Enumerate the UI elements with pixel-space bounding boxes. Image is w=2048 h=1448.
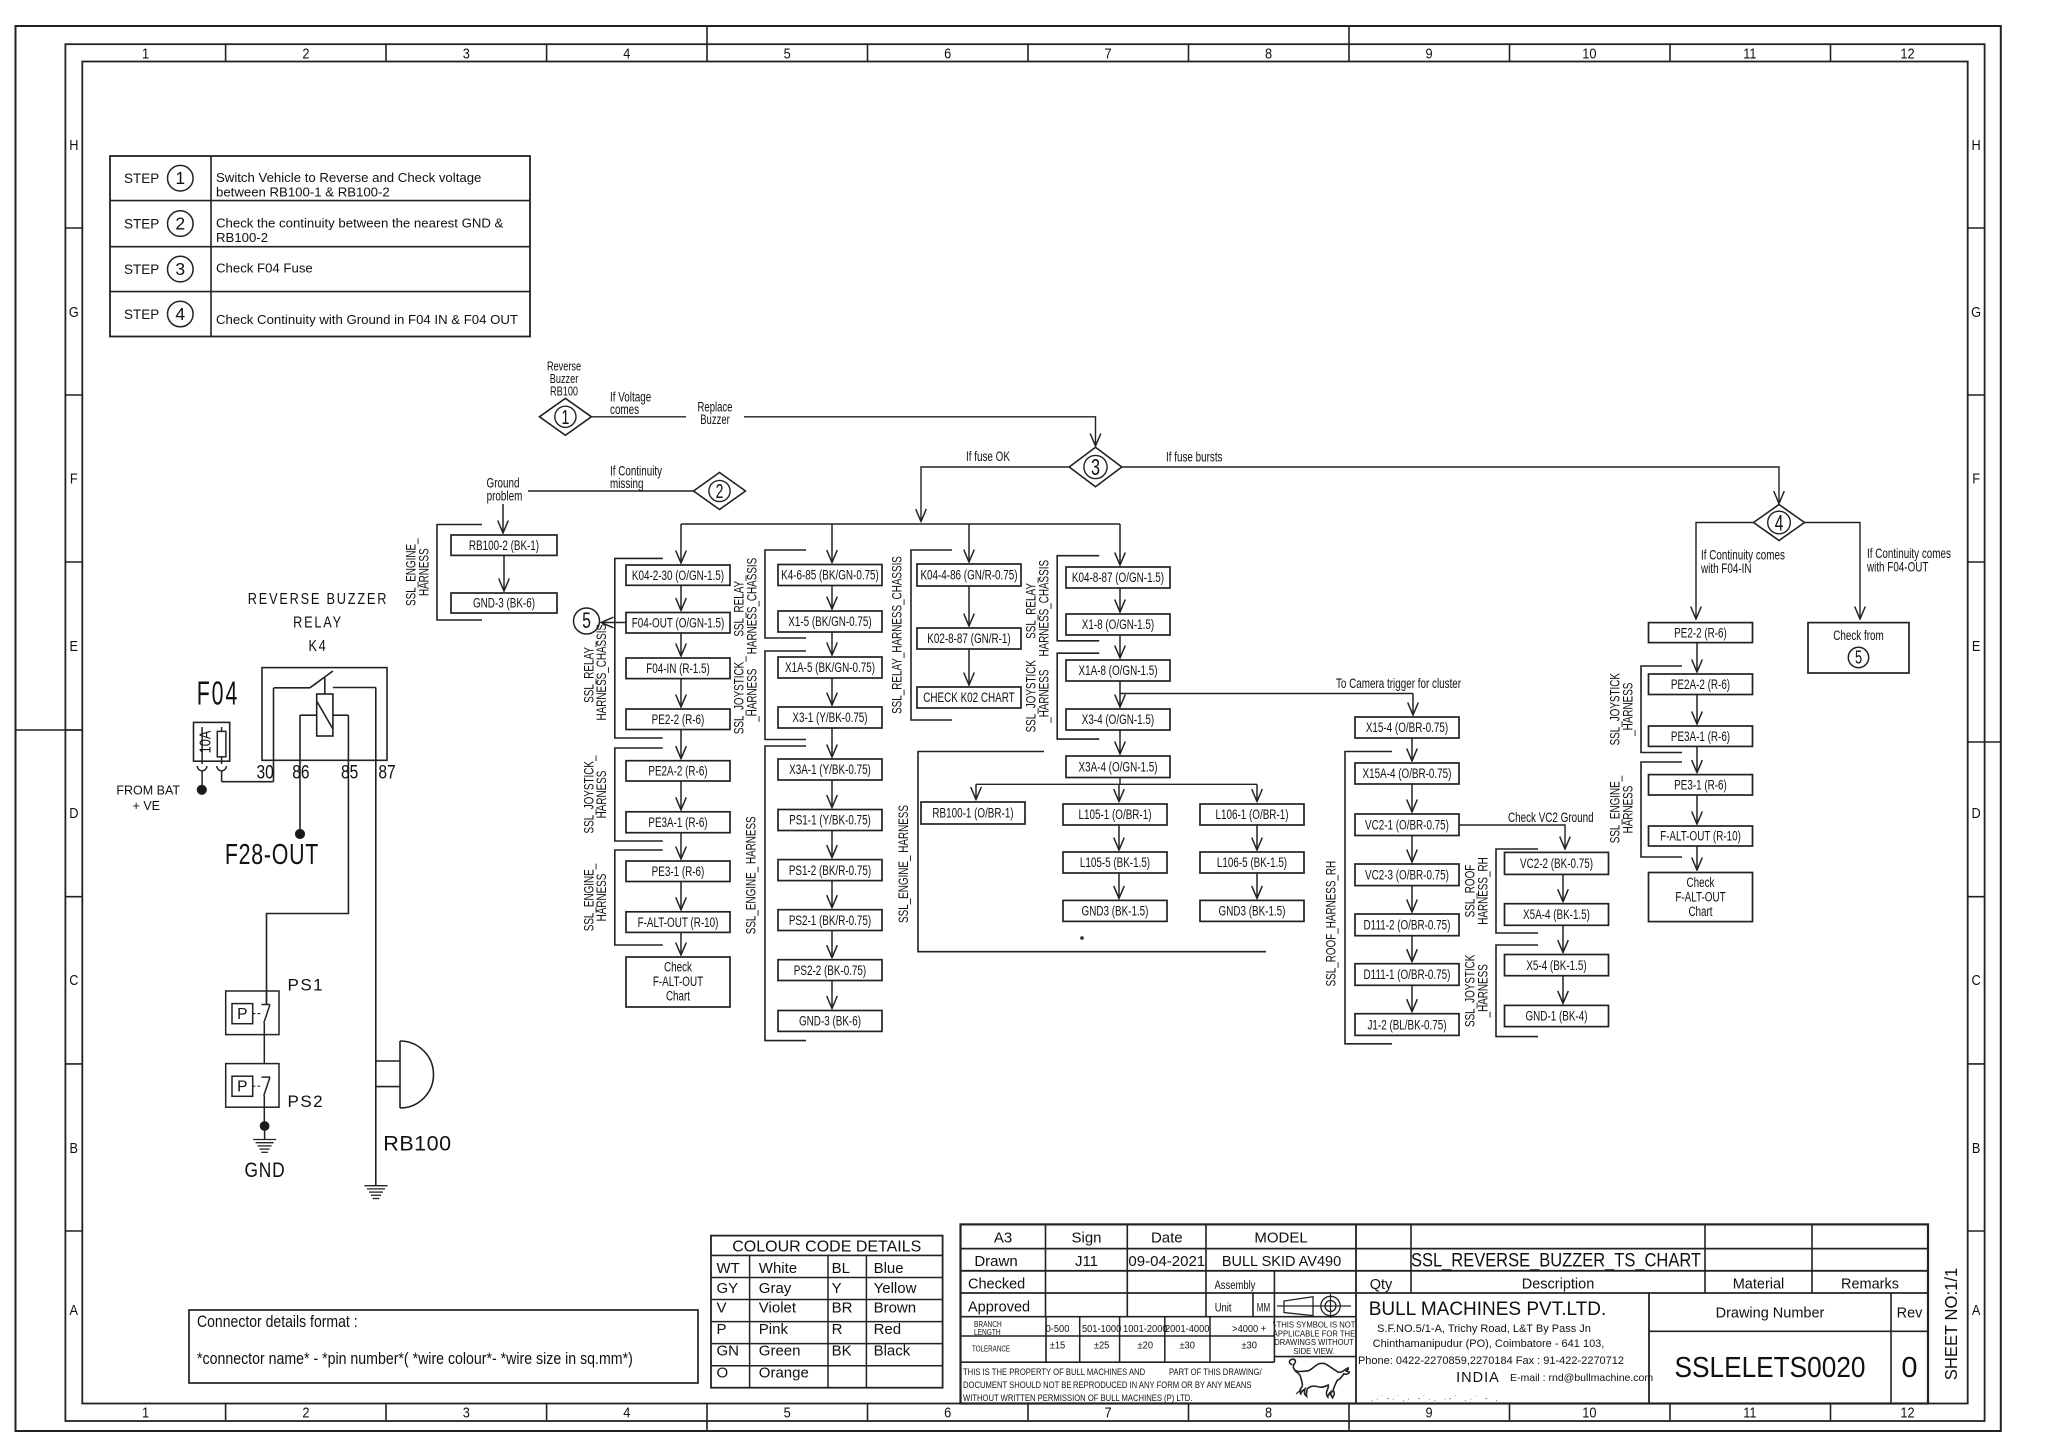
svg-text:DOCUMENT SHOULD NOT BE: DOCUMENT SHOULD NOT BE bbox=[963, 1380, 1072, 1390]
svg-text:4: 4 bbox=[175, 304, 185, 324]
svg-text:F-ALT-OUT (R-10): F-ALT-OUT (R-10) bbox=[638, 915, 719, 931]
svg-text:BR: BR bbox=[832, 1300, 853, 1317]
svg-text:Chart: Chart bbox=[1688, 904, 1712, 920]
svg-text:±20: ±20 bbox=[1138, 1341, 1154, 1352]
svg-text:G: G bbox=[69, 304, 79, 321]
svg-text:Qty: Qty bbox=[1370, 1277, 1393, 1293]
svg-text:F04: F04 bbox=[197, 675, 240, 712]
svg-text:2: 2 bbox=[175, 214, 185, 234]
svg-text:Green: Green bbox=[759, 1343, 801, 1360]
svg-text:F04-OUT (O/GN-1.5): F04-OUT (O/GN-1.5) bbox=[632, 616, 725, 632]
svg-text:STEP: STEP bbox=[124, 262, 159, 277]
svg-text:2: 2 bbox=[302, 46, 309, 63]
svg-text:K04-2-30 (O/GN-1.5): K04-2-30 (O/GN-1.5) bbox=[632, 568, 724, 584]
svg-text:GN: GN bbox=[717, 1343, 740, 1360]
svg-text:D: D bbox=[69, 805, 78, 822]
svg-text:K4-6-85 (BK/GN-0.75): K4-6-85 (BK/GN-0.75) bbox=[781, 568, 879, 584]
svg-text:X3A-1 (Y/BK-0.75): X3A-1 (Y/BK-0.75) bbox=[789, 762, 871, 778]
svg-text:L106-5 (BK-1.5): L106-5 (BK-1.5) bbox=[1217, 855, 1287, 871]
svg-text:Drawn: Drawn bbox=[974, 1253, 1017, 1270]
svg-text:Yellow: Yellow bbox=[874, 1280, 917, 1297]
svg-text:2001-4000: 2001-4000 bbox=[1165, 1324, 1210, 1335]
svg-text:Drawing Number: Drawing Number bbox=[1716, 1306, 1825, 1322]
svg-text:6: 6 bbox=[944, 1405, 951, 1422]
svg-text:PE3-1 (R-6): PE3-1 (R-6) bbox=[652, 864, 705, 880]
svg-text:>4000 +: >4000 + bbox=[1232, 1324, 1266, 1335]
svg-text:F-ALT-OUT: F-ALT-OUT bbox=[1675, 890, 1726, 906]
svg-text:Check from: Check from bbox=[1833, 628, 1884, 644]
svg-text:1001-2000: 1001-2000 bbox=[1123, 1324, 1168, 1335]
svg-text:GND-3 (BK-6): GND-3 (BK-6) bbox=[799, 1014, 861, 1030]
svg-text:+ VE: + VE bbox=[133, 799, 160, 813]
svg-text:Chinthamanipudur (PO), Coimbat: Chinthamanipudur (PO), Coimbatore - 641 … bbox=[1373, 1338, 1605, 1350]
svg-text:PE2-2 (R-6): PE2-2 (R-6) bbox=[1674, 625, 1727, 641]
svg-text:SIDE VIEW.: SIDE VIEW. bbox=[1293, 1346, 1334, 1356]
svg-text:1: 1 bbox=[562, 407, 570, 429]
svg-text:A: A bbox=[70, 1302, 79, 1319]
svg-text:MM: MM bbox=[1257, 1303, 1270, 1315]
svg-text:11: 11 bbox=[1743, 1405, 1756, 1422]
svg-text:B: B bbox=[70, 1140, 79, 1157]
svg-text:HARNESS_CHASSIS: HARNESS_CHASSIS bbox=[594, 624, 610, 721]
svg-text:8: 8 bbox=[1265, 1405, 1272, 1422]
svg-text:COLOUR CODE DETAILS: COLOUR CODE DETAILS bbox=[732, 1238, 921, 1255]
svg-text:12: 12 bbox=[1900, 1405, 1914, 1422]
svg-text:10: 10 bbox=[1582, 1405, 1596, 1422]
svg-text:10: 10 bbox=[1582, 46, 1596, 63]
svg-text:X3-4 (O/GN-1.5): X3-4 (O/GN-1.5) bbox=[1082, 712, 1154, 728]
svg-text:Buzzer: Buzzer bbox=[700, 412, 730, 427]
svg-text:BULL MACHINES PVT.LTD.: BULL MACHINES PVT.LTD. bbox=[1369, 1299, 1607, 1320]
svg-text:GND: GND bbox=[244, 1159, 285, 1182]
svg-text:HARNESS_CHASSIS: HARNESS_CHASSIS bbox=[744, 558, 760, 655]
svg-text:.·˙-·˙.· -˙·. ·-˙ .·˙ - .: .·˙-·˙.· -˙·. ·-˙ .·˙ - . bbox=[1371, 1395, 1500, 1403]
svg-text:D111-2 (O/BR-0.75): D111-2 (O/BR-0.75) bbox=[1364, 918, 1451, 934]
svg-text:Orange: Orange bbox=[759, 1365, 809, 1382]
svg-text:F-ALT-OUT: F-ALT-OUT bbox=[653, 974, 704, 990]
svg-text:Approved: Approved bbox=[968, 1300, 1030, 1316]
svg-text:REPRODUCED IN ANY FORM OR BY A: REPRODUCED IN ANY FORM OR BY ANY MEANS bbox=[1073, 1380, 1252, 1390]
svg-text:1: 1 bbox=[175, 168, 185, 188]
svg-text:GND-3 (BK-6): GND-3 (BK-6) bbox=[473, 596, 535, 612]
svg-text:K4: K4 bbox=[309, 638, 328, 655]
svg-text:J11: J11 bbox=[1075, 1253, 1098, 1270]
svg-text:CHECK K02 CHART: CHECK K02 CHART bbox=[923, 690, 1015, 706]
svg-text:comes: comes bbox=[610, 401, 639, 417]
svg-text:THIS IS THE PROPERTY OF BULL M: THIS IS THE PROPERTY OF BULL MACHINES AN… bbox=[963, 1367, 1145, 1377]
svg-text:2: 2 bbox=[302, 1405, 309, 1422]
svg-text:4: 4 bbox=[623, 1405, 630, 1422]
svg-text:VC2-1 (O/BR-0.75): VC2-1 (O/BR-0.75) bbox=[1365, 818, 1449, 834]
svg-text:X1A-8 (O/GN-1.5): X1A-8 (O/GN-1.5) bbox=[1079, 663, 1158, 679]
svg-text:RB100-2: RB100-2 bbox=[216, 230, 268, 245]
svg-text:PE2A-2 (R-6): PE2A-2 (R-6) bbox=[648, 764, 707, 780]
svg-text:5: 5 bbox=[784, 46, 791, 63]
svg-text:L106-1 (O/BR-1): L106-1 (O/BR-1) bbox=[1216, 807, 1289, 823]
svg-text:RB100-1 (O/BR-1): RB100-1 (O/BR-1) bbox=[932, 806, 1013, 822]
svg-text:K04-4-86 (GN/R-0.75): K04-4-86 (GN/R-0.75) bbox=[920, 568, 1017, 584]
svg-text:PS2-2 (BK-0.75): PS2-2 (BK-0.75) bbox=[794, 963, 866, 979]
svg-text:Pink: Pink bbox=[759, 1321, 789, 1338]
svg-text:L105-1 (O/BR-1): L105-1 (O/BR-1) bbox=[1079, 807, 1152, 823]
svg-text:Sign: Sign bbox=[1071, 1230, 1101, 1247]
svg-text:D111-1 (O/BR-0.75): D111-1 (O/BR-0.75) bbox=[1364, 967, 1451, 983]
svg-text:Red: Red bbox=[874, 1321, 902, 1338]
svg-text:VC2-3 (O/BR-0.75): VC2-3 (O/BR-0.75) bbox=[1365, 868, 1449, 884]
svg-text:WT: WT bbox=[717, 1260, 740, 1277]
svg-text:3: 3 bbox=[463, 46, 470, 63]
svg-text:_HARNESS: _HARNESS bbox=[1475, 964, 1491, 1018]
svg-text:8: 8 bbox=[1265, 46, 1272, 63]
svg-text:BULL SKID AV490: BULL SKID AV490 bbox=[1222, 1254, 1341, 1270]
svg-text:VC2-2 (BK-0.75): VC2-2 (BK-0.75) bbox=[1520, 856, 1593, 872]
svg-text:X1A-5 (BK/GN-0.75): X1A-5 (BK/GN-0.75) bbox=[785, 660, 875, 676]
svg-text:K04-8-87 (O/GN-1.5): K04-8-87 (O/GN-1.5) bbox=[1072, 570, 1164, 586]
svg-text:Violet: Violet bbox=[759, 1300, 797, 1317]
svg-text:±15: ±15 bbox=[1050, 1341, 1066, 1352]
svg-text:4: 4 bbox=[1775, 510, 1784, 535]
svg-text:PS1-2 (BK/R-0.75): PS1-2 (BK/R-0.75) bbox=[789, 863, 871, 879]
svg-text:0-500: 0-500 bbox=[1046, 1324, 1070, 1335]
svg-text:Check Continuity with Ground i: Check Continuity with Ground in F04 IN &… bbox=[216, 312, 518, 327]
svg-text:R: R bbox=[832, 1321, 843, 1338]
svg-text:Date: Date bbox=[1151, 1230, 1183, 1247]
svg-text:1: 1 bbox=[142, 46, 149, 63]
svg-text:B: B bbox=[1972, 1140, 1981, 1157]
svg-text:FROM BAT: FROM BAT bbox=[116, 784, 180, 798]
svg-text:P: P bbox=[237, 1006, 247, 1023]
svg-text:7: 7 bbox=[1104, 46, 1111, 63]
svg-text:7: 7 bbox=[1104, 1405, 1111, 1422]
svg-text:BL: BL bbox=[832, 1260, 850, 1277]
svg-text:REVERSE BUZZER: REVERSE BUZZER bbox=[248, 591, 388, 608]
svg-text:STEP: STEP bbox=[124, 216, 159, 231]
svg-text:SSL_REVERSE_BUZZER_TS_CHART: SSL_REVERSE_BUZZER_TS_CHART bbox=[1411, 1250, 1701, 1272]
svg-text:X1-8 (O/GN-1.5): X1-8 (O/GN-1.5) bbox=[1082, 617, 1154, 633]
svg-text:3: 3 bbox=[175, 259, 185, 279]
svg-text:5: 5 bbox=[1855, 648, 1862, 668]
svg-text:P: P bbox=[237, 1079, 247, 1096]
svg-text:Unit: Unit bbox=[1215, 1303, 1232, 1315]
svg-text:with F04-IN: with F04-IN bbox=[1700, 560, 1751, 576]
svg-text:Blue: Blue bbox=[874, 1260, 904, 1277]
svg-text:Switch Vehicle to Reverse and: Switch Vehicle to Reverse and Check volt… bbox=[216, 170, 481, 185]
svg-text:To Camera trigger for cluster: To Camera trigger for cluster bbox=[1336, 675, 1461, 691]
svg-text:PE3A-1 (R-6): PE3A-1 (R-6) bbox=[1671, 729, 1730, 745]
svg-text:P: P bbox=[717, 1321, 727, 1338]
svg-text:O: O bbox=[717, 1365, 729, 1382]
svg-text:X3-1 (Y/BK-0.75): X3-1 (Y/BK-0.75) bbox=[792, 710, 867, 726]
svg-text:X15A-4 (O/BR-0.75): X15A-4 (O/BR-0.75) bbox=[1363, 766, 1452, 782]
svg-text:Checked: Checked bbox=[968, 1277, 1025, 1293]
svg-text:PE3-1 (R-6): PE3-1 (R-6) bbox=[1674, 778, 1727, 794]
svg-text:If fuse OK: If fuse OK bbox=[966, 448, 1010, 464]
svg-text:RB100: RB100 bbox=[383, 1132, 451, 1156]
svg-text:Gray: Gray bbox=[759, 1280, 792, 1297]
svg-text:PE3A-1 (R-6): PE3A-1 (R-6) bbox=[648, 815, 707, 831]
svg-text:09-04-2021: 09-04-2021 bbox=[1128, 1253, 1205, 1270]
svg-text:10A: 10A bbox=[198, 730, 215, 753]
svg-text:0: 0 bbox=[1901, 1352, 1917, 1384]
svg-text:problem: problem bbox=[487, 488, 523, 504]
svg-text:C: C bbox=[1972, 972, 1981, 989]
svg-text:J1-2 (BL/BK-0.75): J1-2 (BL/BK-0.75) bbox=[1368, 1017, 1447, 1033]
svg-text:White: White bbox=[759, 1260, 797, 1277]
svg-text:4: 4 bbox=[623, 46, 630, 63]
svg-text:12: 12 bbox=[1900, 46, 1914, 63]
svg-text:between RB100-1 & RB100-2: between RB100-1 & RB100-2 bbox=[216, 185, 390, 200]
svg-text:TOLERANCE: TOLERANCE bbox=[972, 1345, 1010, 1354]
svg-text:Material: Material bbox=[1733, 1277, 1785, 1293]
svg-text:H: H bbox=[1972, 137, 1981, 154]
svg-text:Connector details format :: Connector details format : bbox=[197, 1313, 358, 1331]
svg-text:missing: missing bbox=[610, 475, 644, 491]
svg-text:SSL_RELAY_HARNESS_CHASSIS: SSL_RELAY_HARNESS_CHASSIS bbox=[890, 556, 906, 714]
svg-text:Phone: 0422-2270859,2270184 Fa: Phone: 0422-2270859,2270184 Fax : 91-422… bbox=[1358, 1355, 1624, 1367]
svg-text:_HARNESS: _HARNESS bbox=[744, 669, 760, 723]
svg-text:GY: GY bbox=[717, 1280, 739, 1297]
svg-text:PE2A-2 (R-6): PE2A-2 (R-6) bbox=[1671, 677, 1730, 693]
svg-text:HARNESS: HARNESS bbox=[594, 874, 610, 922]
svg-text:2: 2 bbox=[716, 481, 724, 503]
svg-text:Y: Y bbox=[832, 1280, 842, 1297]
svg-text:Remarks: Remarks bbox=[1841, 1277, 1899, 1293]
svg-text:MODEL: MODEL bbox=[1254, 1230, 1307, 1247]
svg-text:_HARNESS: _HARNESS bbox=[1037, 670, 1053, 724]
svg-text:6: 6 bbox=[944, 46, 951, 63]
svg-text:Brown: Brown bbox=[874, 1300, 917, 1317]
svg-text:D: D bbox=[1972, 805, 1981, 822]
svg-text:E: E bbox=[1972, 638, 1981, 655]
svg-text:F04-IN (R-1.5): F04-IN (R-1.5) bbox=[646, 661, 710, 677]
svg-text:Description: Description bbox=[1522, 1277, 1595, 1293]
svg-text:*connector name* - *pin numbe: *connector name* - *pin number*( *wire c… bbox=[197, 1350, 633, 1368]
svg-text:SSL_ENGINE_ HARNESS: SSL_ENGINE_ HARNESS bbox=[896, 805, 912, 923]
svg-text:with F04-OUT: with F04-OUT bbox=[1866, 559, 1928, 575]
svg-text:501-1000: 501-1000 bbox=[1082, 1324, 1122, 1335]
svg-text:RELAY: RELAY bbox=[293, 615, 343, 632]
svg-text:X1-5 (BK/GN-0.75): X1-5 (BK/GN-0.75) bbox=[788, 614, 871, 630]
svg-text:SHEET NO:1/1: SHEET NO:1/1 bbox=[1941, 1268, 1961, 1380]
svg-text:HARNESS_CHASSIS: HARNESS_CHASSIS bbox=[1037, 560, 1053, 657]
svg-text:V: V bbox=[717, 1300, 727, 1317]
svg-text:K02-8-87 (GN/R-1): K02-8-87 (GN/R-1) bbox=[927, 631, 1010, 647]
svg-text:Check: Check bbox=[1687, 875, 1716, 891]
svg-text:_HARNESS: _HARNESS bbox=[1620, 683, 1636, 737]
svg-text:30: 30 bbox=[256, 763, 273, 784]
svg-text:Check the continuity between t: Check the continuity between the nearest… bbox=[216, 216, 504, 231]
svg-text:Check F04 Fuse: Check F04 Fuse bbox=[216, 261, 313, 276]
svg-text:9: 9 bbox=[1425, 1405, 1432, 1422]
svg-text:HARNESS_RH: HARNESS_RH bbox=[1475, 857, 1491, 925]
svg-text:STEP: STEP bbox=[124, 171, 159, 186]
svg-text:9: 9 bbox=[1425, 46, 1432, 63]
svg-text:±30: ±30 bbox=[1179, 1341, 1195, 1352]
svg-text:Black: Black bbox=[874, 1343, 911, 1360]
svg-text:Assembly: Assembly bbox=[1215, 1280, 1256, 1292]
svg-text:If fuse bursts: If fuse bursts bbox=[1166, 449, 1223, 465]
svg-text:SSL_ROOF_HARNESS_RH: SSL_ROOF_HARNESS_RH bbox=[1324, 861, 1340, 987]
svg-text:X3A-4 (O/GN-1.5): X3A-4 (O/GN-1.5) bbox=[1079, 760, 1158, 776]
svg-text:PS2-1 (BK/R-0.75): PS2-1 (BK/R-0.75) bbox=[789, 913, 871, 929]
svg-text:±25: ±25 bbox=[1094, 1341, 1110, 1352]
svg-text:X15-4 (O/BR-0.75): X15-4 (O/BR-0.75) bbox=[1366, 720, 1448, 736]
svg-text:E-mail : rnd@bullmachine.com: E-mail : rnd@bullmachine.com bbox=[1510, 1372, 1653, 1384]
svg-text:PS1: PS1 bbox=[288, 976, 325, 995]
svg-text:Check: Check bbox=[664, 960, 693, 976]
svg-text:F-ALT-OUT (R-10): F-ALT-OUT (R-10) bbox=[1660, 829, 1741, 845]
svg-text:INDIA: INDIA bbox=[1456, 1370, 1500, 1386]
svg-text:H: H bbox=[69, 137, 78, 154]
svg-text:STEP: STEP bbox=[124, 307, 159, 322]
svg-text:GND3 (BK-1.5): GND3 (BK-1.5) bbox=[1219, 904, 1286, 920]
svg-text:11: 11 bbox=[1743, 46, 1756, 63]
svg-text:Check VC2 Ground: Check VC2 Ground bbox=[1508, 809, 1594, 825]
svg-text:86: 86 bbox=[292, 763, 309, 784]
svg-text:A: A bbox=[1972, 1302, 1981, 1319]
svg-text:RB100: RB100 bbox=[550, 384, 578, 399]
svg-text:PS2: PS2 bbox=[288, 1092, 325, 1111]
svg-text:F28-OUT: F28-OUT bbox=[225, 839, 319, 871]
svg-text:±30: ±30 bbox=[1241, 1341, 1257, 1352]
svg-text:HARNESS: HARNESS bbox=[594, 771, 610, 819]
svg-text:X5-4 (BK-1.5): X5-4 (BK-1.5) bbox=[1526, 958, 1586, 974]
svg-text:C: C bbox=[69, 972, 78, 989]
svg-text:BK: BK bbox=[832, 1343, 852, 1360]
svg-text:L105-5 (BK-1.5): L105-5 (BK-1.5) bbox=[1080, 855, 1150, 871]
svg-text:F: F bbox=[1972, 471, 1980, 488]
svg-text:5: 5 bbox=[784, 1405, 791, 1422]
svg-text:85: 85 bbox=[341, 763, 358, 784]
svg-text:LENGTH: LENGTH bbox=[974, 1328, 1001, 1337]
svg-text:HARNESS: HARNESS bbox=[1620, 786, 1636, 834]
svg-text:RB100-2 (BK-1): RB100-2 (BK-1) bbox=[469, 538, 539, 554]
svg-text:S.F.NO.5/1-A, Trichy Road, L&T: S.F.NO.5/1-A, Trichy Road, L&T By Pass J… bbox=[1377, 1323, 1591, 1335]
svg-text:1: 1 bbox=[142, 1405, 149, 1422]
svg-text:3: 3 bbox=[1091, 454, 1100, 480]
svg-text:PS1-1 (Y/BK-0.75): PS1-1 (Y/BK-0.75) bbox=[789, 813, 871, 829]
svg-text:GND-1 (BK-4): GND-1 (BK-4) bbox=[1526, 1009, 1588, 1025]
svg-text:SSLELETS0020: SSLELETS0020 bbox=[1675, 1352, 1866, 1384]
svg-text:HARNESS: HARNESS bbox=[416, 548, 432, 596]
svg-text:E: E bbox=[70, 638, 79, 655]
svg-text:SSL_ENGINE_ HARNESS: SSL_ENGINE_ HARNESS bbox=[744, 816, 760, 934]
svg-text:F: F bbox=[70, 471, 78, 488]
svg-text:Chart: Chart bbox=[666, 989, 690, 1005]
svg-text:PART OF THIS DRAWING/: PART OF THIS DRAWING/ bbox=[1169, 1367, 1262, 1377]
svg-text:PE2-2 (R-6): PE2-2 (R-6) bbox=[652, 712, 705, 728]
svg-text:WITHOUT WRITTEN PERMISSION OF: WITHOUT WRITTEN PERMISSION OF BULL MACHI… bbox=[963, 1393, 1192, 1403]
svg-text:3: 3 bbox=[463, 1405, 470, 1422]
svg-text:GND3 (BK-1.5): GND3 (BK-1.5) bbox=[1082, 904, 1149, 920]
svg-text:G: G bbox=[1971, 304, 1981, 321]
svg-text:87: 87 bbox=[378, 763, 395, 784]
svg-text:X5A-4 (BK-1.5): X5A-4 (BK-1.5) bbox=[1523, 907, 1590, 923]
svg-text:A3: A3 bbox=[994, 1230, 1012, 1247]
svg-text:5: 5 bbox=[582, 608, 591, 633]
svg-text:Rev: Rev bbox=[1897, 1306, 1924, 1322]
